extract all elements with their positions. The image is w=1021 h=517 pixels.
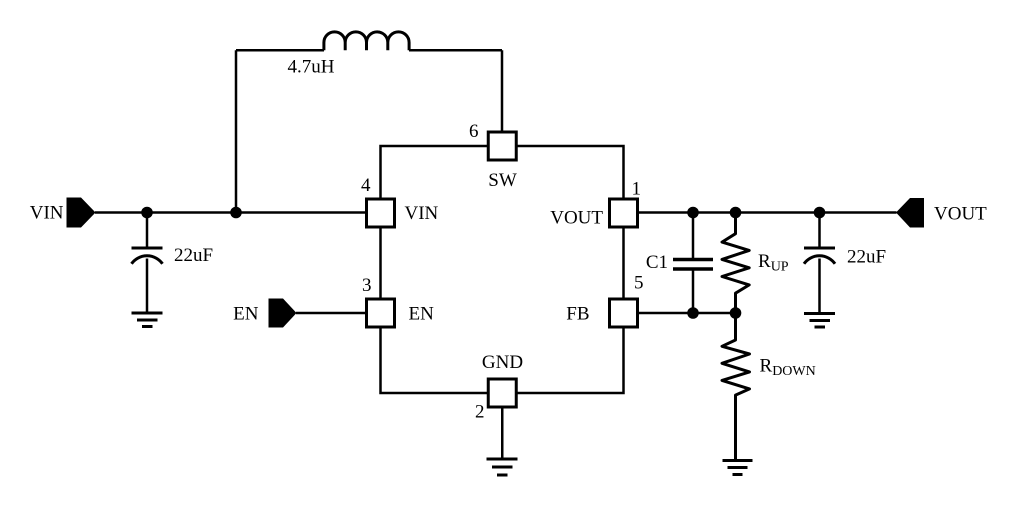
terminal VIN xyxy=(67,198,96,228)
ground output cap xyxy=(804,314,835,328)
pin 1 VOUT xyxy=(610,199,638,227)
wire output cap top lead xyxy=(818,213,821,248)
wire C1 bottom lead xyxy=(692,269,695,313)
svg-text:VIN: VIN xyxy=(405,203,439,224)
IC U1 body xyxy=(381,146,624,393)
svg-text:EN: EN xyxy=(409,304,435,325)
wire top rail right xyxy=(409,49,502,52)
svg-text:VIN: VIN xyxy=(30,203,64,224)
svg-text:4.7uH: 4.7uH xyxy=(288,57,335,78)
ground input cap xyxy=(132,313,163,327)
node input-cap junction xyxy=(141,207,153,219)
svg-text:22uF: 22uF xyxy=(174,245,213,266)
svg-text:5: 5 xyxy=(634,273,644,294)
pin 5 FB xyxy=(610,299,638,327)
wire inductor branch up xyxy=(235,50,238,212)
capacitor COUT 22uF xyxy=(804,248,835,264)
resistor RDOWN xyxy=(722,313,750,461)
pin 3 EN xyxy=(367,299,395,327)
svg-text:RDOWN: RDOWN xyxy=(760,356,816,380)
wire VIN rail xyxy=(95,211,367,214)
wire FB rail xyxy=(638,312,736,315)
svg-text:3: 3 xyxy=(362,275,372,296)
wire top rail left xyxy=(236,49,324,52)
svg-text:1: 1 xyxy=(632,179,642,200)
svg-text:RUP: RUP xyxy=(758,251,789,275)
wire output cap bottom lead xyxy=(818,259,821,314)
svg-text:4: 4 xyxy=(361,175,371,196)
svg-text:22uF: 22uF xyxy=(847,247,886,268)
pin 2 GND xyxy=(488,379,516,407)
wire EN terminal to pin 3 xyxy=(296,312,367,315)
node RUP bottom junction xyxy=(730,307,742,319)
ground RDOWN xyxy=(723,461,753,475)
wire VOUT rail xyxy=(638,211,897,214)
svg-text:VOUT: VOUT xyxy=(934,204,987,225)
inductor L1 4.7uH xyxy=(324,32,409,50)
node C1 bottom junction xyxy=(687,307,699,319)
terminal EN xyxy=(269,299,297,328)
wire C1 top lead xyxy=(692,213,695,260)
resistor RUP xyxy=(722,213,749,314)
terminal VOUT xyxy=(896,198,924,228)
capacitor C1 xyxy=(673,260,713,270)
wire input cap bottom lead xyxy=(146,259,149,314)
svg-text:2: 2 xyxy=(475,402,485,423)
node inductor branch junction xyxy=(230,207,242,219)
capacitor CIN 22uF xyxy=(132,248,163,264)
wire input cap top lead xyxy=(146,213,149,248)
wire pin 2 to ground xyxy=(501,407,504,459)
node C1 top junction xyxy=(687,207,699,219)
svg-text:VOUT: VOUT xyxy=(550,208,603,229)
pin 6 SW xyxy=(488,132,516,160)
node output cap junction xyxy=(814,207,826,219)
ground IC xyxy=(487,459,518,475)
svg-text:GND: GND xyxy=(482,352,523,373)
pin 4 VIN xyxy=(367,199,395,227)
svg-text:FB: FB xyxy=(566,304,589,325)
svg-text:6: 6 xyxy=(469,121,479,142)
svg-text:SW: SW xyxy=(488,170,517,191)
svg-text:EN: EN xyxy=(233,304,259,325)
wire SW drop xyxy=(501,50,504,132)
node RUP top junction xyxy=(730,207,742,219)
svg-text:C1: C1 xyxy=(646,252,668,273)
